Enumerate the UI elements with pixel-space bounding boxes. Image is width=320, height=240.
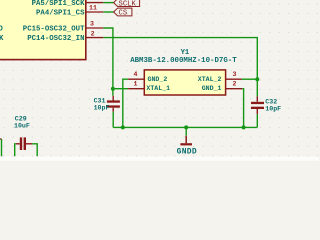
wire GND_2 elbow down (123, 79, 128, 127)
bottom light band (0, 157, 319, 161)
svg-text:11: 11 (89, 5, 97, 12)
capacitor C32 (251, 96, 264, 114)
wire GND_1 elbow down (242, 89, 243, 128)
MCU U? body (0, 0, 86, 60)
wire C32 top lead (256, 79, 258, 96)
junction XTAL_1 node (111, 87, 115, 91)
Y1 pin 3 stub (226, 78, 242, 80)
junction GND at symbol (184, 125, 188, 129)
svg-text:PA5/SPI1_SCK: PA5/SPI1_SCK (32, 0, 85, 8)
capacitor C31 (107, 96, 120, 112)
svg-text:PC15-OSC32_OUT: PC15-OSC32_OUT (23, 26, 85, 34)
offscreen pin stub left (0, 138, 2, 140)
svg-text:3: 3 (233, 71, 237, 78)
wire left stub down (1, 139, 3, 156)
svg-text:Y1: Y1 (181, 49, 190, 57)
wire SCLK stub (103, 2, 113, 4)
svg-text:XTAL_1: XTAL_1 (146, 85, 170, 92)
junction GND_2 at bus (121, 125, 125, 129)
MCU pin 11 stub (86, 11, 104, 13)
svg-text:3: 3 (90, 21, 94, 28)
svg-text:PA4/SPI1_CS: PA4/SPI1_CS (36, 9, 85, 17)
svg-text:CS: CS (119, 10, 128, 18)
svg-text:10: 10 (89, 0, 97, 2)
svg-text:SCLK: SCLK (119, 0, 137, 8)
svg-text:XTAL_2: XTAL_2 (198, 76, 222, 83)
svg-text:GND_2: GND_2 (148, 76, 168, 83)
wire CS stub (103, 11, 113, 13)
global label SCLK (114, 0, 140, 8)
wire PC14 long to right and down (103, 38, 257, 80)
wire XTAL_2 to node (242, 78, 258, 80)
svg-text:2: 2 (233, 81, 237, 88)
global label CS (114, 8, 132, 18)
MCU pin 10 stub (86, 2, 104, 4)
wire C31 bottom lead (112, 112, 114, 128)
wire C29 right elbow (32, 144, 37, 157)
ground GNDD symbol (180, 127, 192, 145)
wire C29 left elbow (15, 144, 16, 157)
capacitor C29 (16, 137, 32, 150)
svg-text:10pF: 10pF (94, 104, 110, 111)
svg-text:1: 1 (134, 81, 138, 88)
Y1 pin 1 stub (128, 88, 144, 90)
junction GND_1 at bus (242, 125, 246, 129)
wire PC15 down to XTAL_1 node (103, 28, 113, 96)
svg-text:GND_1: GND_1 (202, 85, 222, 92)
wire C32 bottom lead (256, 114, 258, 127)
Y1 pin 2 stub (226, 88, 243, 90)
svg-text:GNDD: GNDD (177, 147, 197, 156)
MCU pin 3 stub (86, 27, 104, 29)
Y1 pin 4 stub (128, 78, 144, 80)
wire ground bus (113, 126, 257, 128)
svg-text:10uF: 10uF (14, 122, 30, 129)
crystal Y1 body (144, 70, 225, 95)
svg-text:ABM3B-12.000MHZ-10-D7G-T: ABM3B-12.000MHZ-10-D7G-T (130, 57, 237, 65)
svg-text:4: 4 (134, 71, 138, 78)
svg-text:PC14-OSC32_IN: PC14-OSC32_IN (27, 35, 84, 43)
svg-text:2: 2 (91, 30, 95, 37)
wire XTAL_1 horizontal (113, 88, 128, 90)
junction XTAL_2 node (255, 77, 259, 81)
svg-text:10pF: 10pF (265, 105, 281, 112)
svg-text:K: K (0, 35, 4, 43)
MCU pin 2 stub (86, 37, 104, 39)
